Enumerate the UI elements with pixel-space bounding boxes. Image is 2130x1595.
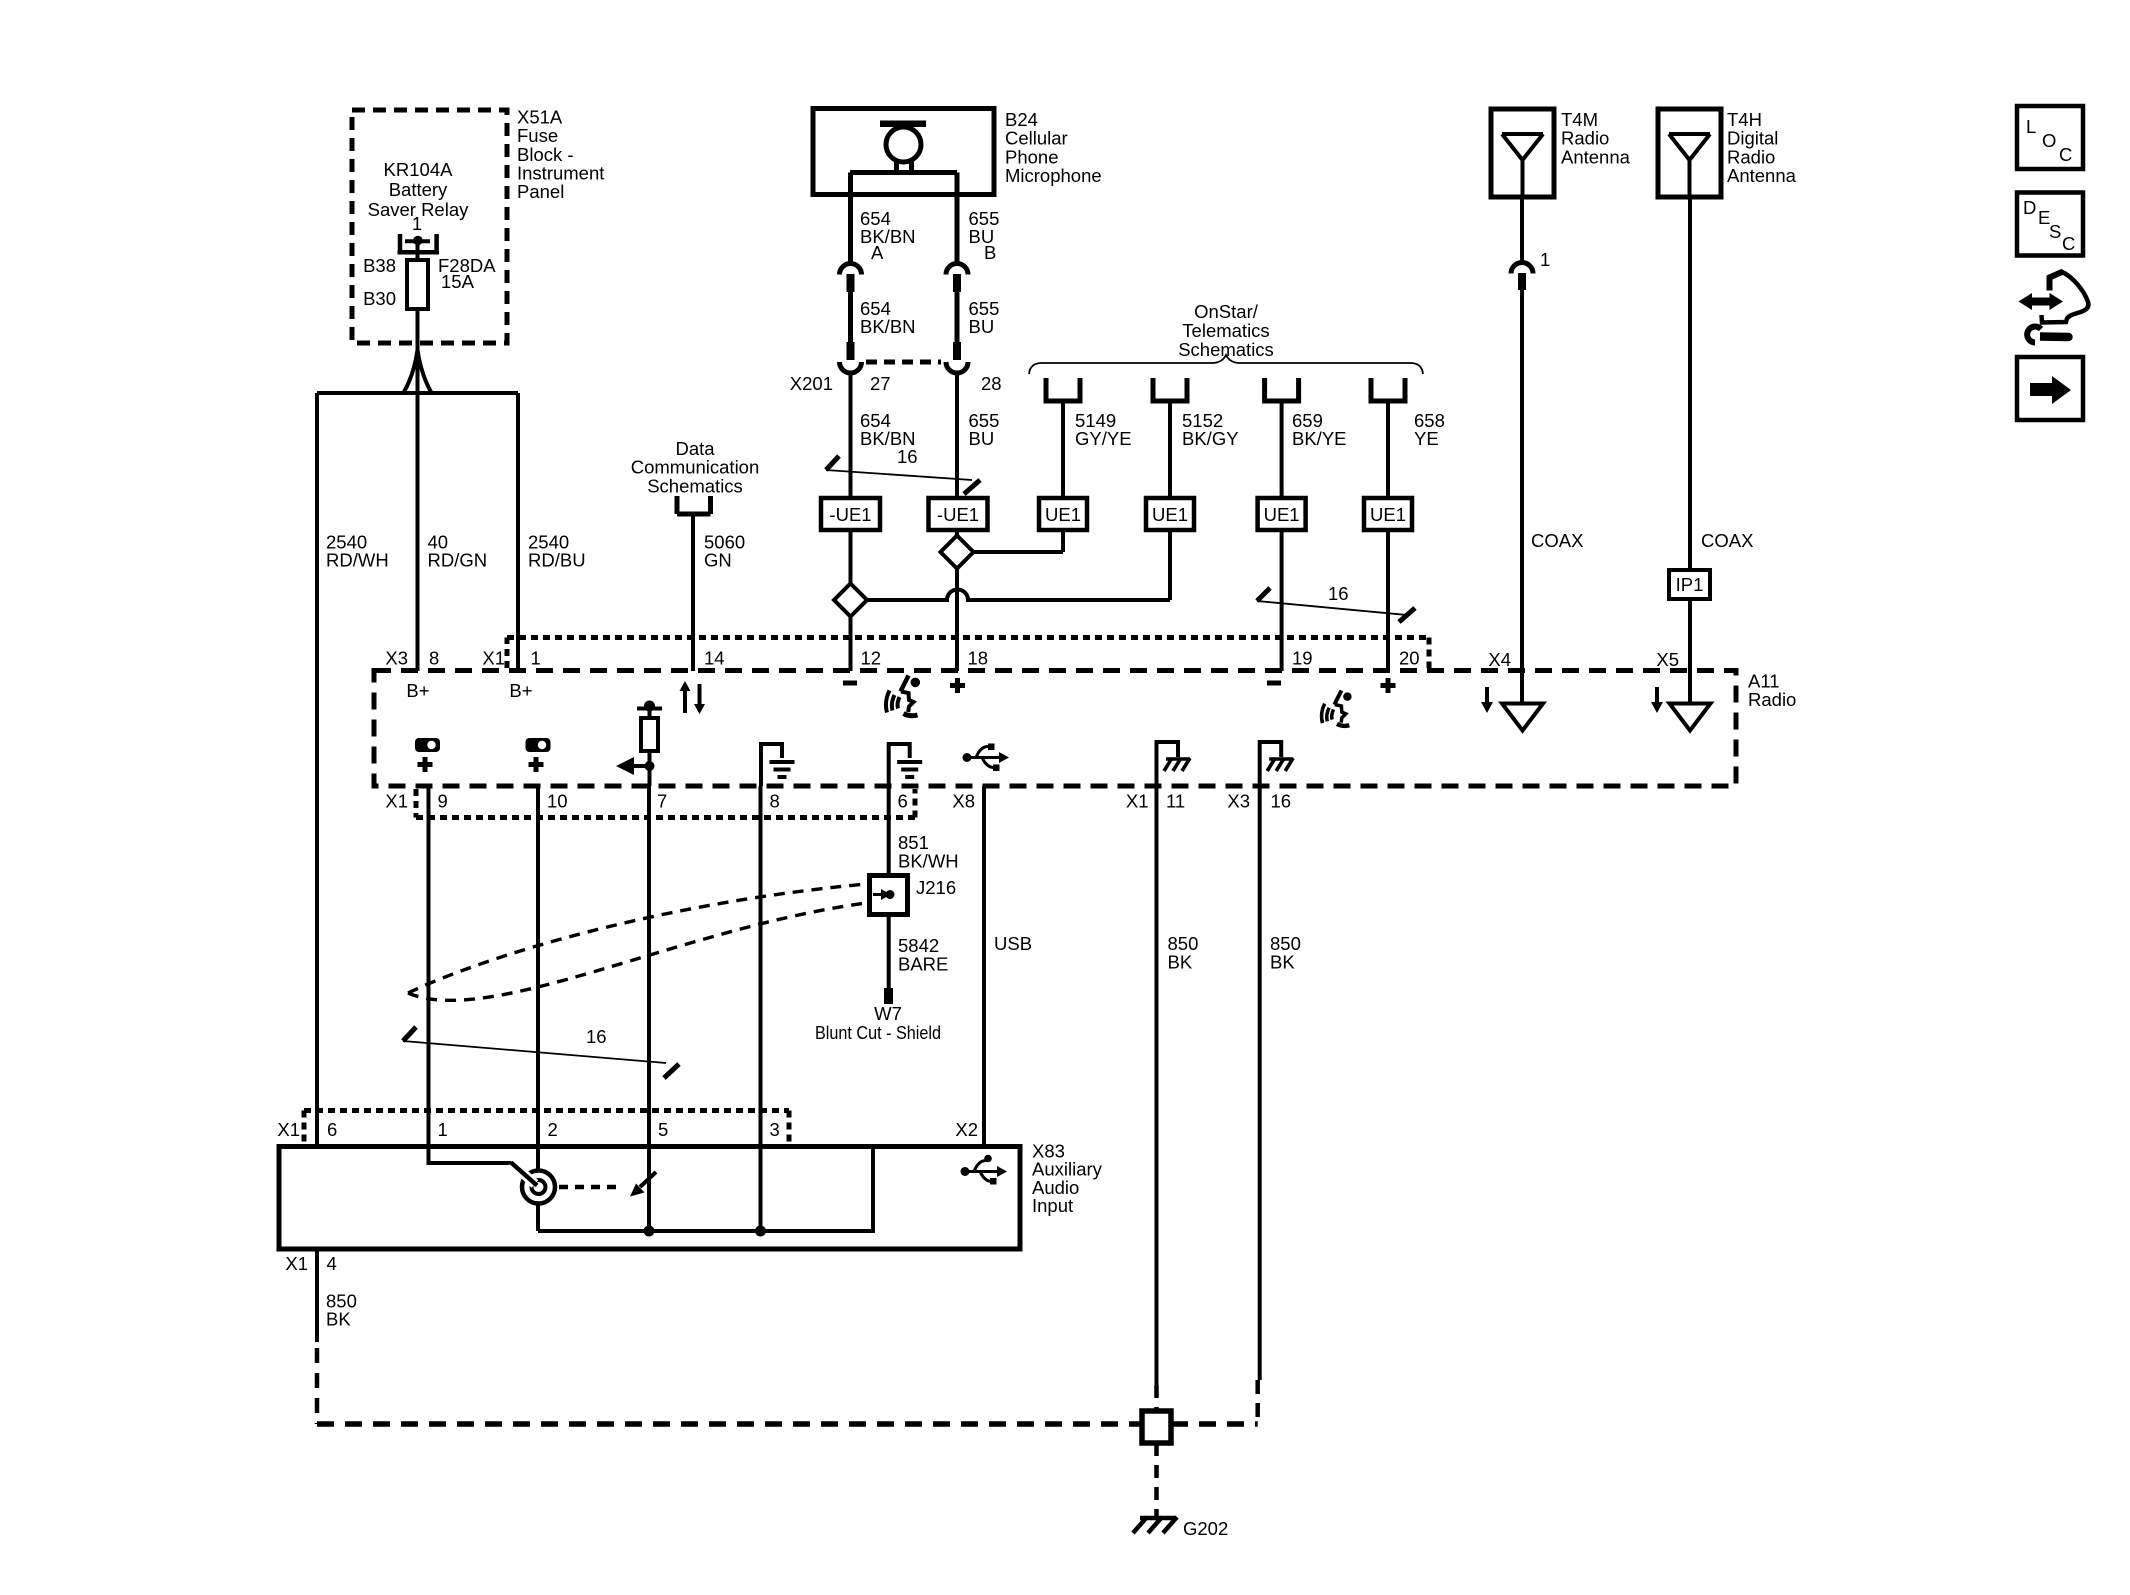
blunt cut W7 tick — [884, 988, 893, 1004]
splice box UE1 on 5152 — [1146, 498, 1194, 530]
svg-text:X2: X2 — [955, 1119, 978, 1140]
wire 850 BK pin11 down — [1155, 786, 1159, 1385]
connector X201 pin28 female arc — [946, 362, 968, 373]
wire 5841 GN pin10 to X83 pin2 — [536, 786, 540, 1146]
wire relay to fuse — [416, 241, 420, 261]
svg-text:Schematics: Schematics — [647, 475, 743, 496]
wire 654 mic leg A — [848, 173, 853, 263]
wire 654 below X201 — [849, 374, 853, 498]
splice diamond on 655 — [941, 536, 974, 569]
svg-text:10: 10 — [547, 791, 568, 812]
connector X201 dashed tie line — [866, 360, 941, 365]
voice speaker icon pins 12/18 — [886, 676, 920, 716]
svg-text:Schematics: Schematics — [1178, 339, 1274, 360]
splice box -UE1 on 655 — [929, 498, 988, 530]
minus sign pin19 — [1267, 681, 1281, 686]
svg-text:B+: B+ — [406, 680, 429, 701]
USB icon X83 — [961, 1155, 1008, 1185]
svg-text:B38: B38 — [363, 255, 396, 276]
svg-text:KR104A: KR104A — [384, 159, 454, 180]
svg-text:Blunt Cut - Shield: Blunt Cut - Shield — [815, 1022, 941, 1043]
wire 655 diamond down to pin 18 — [955, 569, 959, 672]
svg-text:B+: B+ — [509, 680, 532, 701]
chassis ground symbol pin11 — [1157, 742, 1191, 786]
svg-text:D: D — [2023, 197, 2036, 218]
wire T4M coax to radio X4 — [1520, 290, 1524, 703]
label B24 Cellular Phone Microphone — [1005, 109, 1102, 186]
svg-text:1: 1 — [438, 1119, 448, 1140]
splice fork right branch — [418, 350, 432, 392]
off-page stub OnStar 1 — [1046, 378, 1080, 401]
wire 850 BK X83 pin4 — [315, 1249, 319, 1342]
svg-text:18: 18 — [968, 648, 989, 669]
svg-text:BK/GY: BK/GY — [1182, 428, 1239, 449]
svg-text:16: 16 — [1328, 583, 1349, 604]
X5 receive arrow — [1651, 687, 1663, 713]
wire 2060 BU pin7 to X83 pin5 — [647, 786, 651, 1146]
svg-text:YE: YE — [1414, 428, 1439, 449]
wire 850 BK pin16 down — [1258, 786, 1262, 1380]
wire 2540 RD/BU right vertical — [516, 393, 520, 671]
svg-text:UE1: UE1 — [1264, 504, 1300, 525]
svg-text:16: 16 — [586, 1026, 607, 1047]
svg-text:BK: BK — [1270, 952, 1295, 973]
signal ground symbol pin8 — [761, 744, 795, 786]
wire 5842 BARE J216 to blunt cut — [887, 915, 891, 988]
svg-text:IP1: IP1 — [1676, 574, 1704, 595]
inline connector A male tick — [847, 274, 855, 292]
svg-text:19: 19 — [1292, 648, 1313, 669]
off-page stub OnStar 4 — [1371, 378, 1405, 401]
wire T4H coax upper — [1688, 197, 1692, 570]
svg-text:5: 5 — [658, 1119, 668, 1140]
svg-text:G202: G202 — [1183, 1518, 1228, 1539]
wire 5839 GY pin9 to X83 pin1 — [427, 786, 431, 1146]
nav icon LOC box — [2017, 106, 2083, 169]
splice square S — [1142, 1411, 1171, 1443]
svg-text:A: A — [871, 242, 884, 263]
svg-text:BK/YE: BK/YE — [1292, 428, 1347, 449]
antenna T4H box — [1658, 109, 1721, 197]
svg-text:Input: Input — [1032, 1195, 1073, 1216]
wire 654 diamond down to pin 12 — [849, 617, 853, 672]
svg-text:Telematics: Telematics — [1182, 320, 1269, 341]
svg-text:UE1: UE1 — [1152, 504, 1188, 525]
inline connector B female arc — [946, 264, 968, 275]
off-page stub OnStar 2 — [1153, 378, 1187, 401]
inline connector 1 male tick — [1518, 273, 1526, 290]
label A11 Radio — [1748, 671, 1796, 711]
wire T4H coax to radio X5 — [1688, 599, 1692, 703]
connector IP1 box — [1669, 570, 1710, 599]
label X51A Fuse Block - Instrument Panel — [517, 106, 604, 202]
X83 internal bus — [538, 1147, 873, 1232]
X5 antenna receptacle triangle — [1670, 704, 1711, 731]
twisted pair symbol 16 onstar — [1257, 588, 1415, 622]
fuse block X51A dashed box — [352, 110, 507, 343]
svg-text:X4: X4 — [1488, 649, 1511, 670]
wire 655 box to diamond — [955, 530, 959, 536]
svg-text:BK/WH: BK/WH — [898, 851, 959, 872]
jack switch contact arrow — [630, 1172, 656, 1197]
svg-text:BK/BN: BK/BN — [860, 316, 916, 337]
ground G202 symbol — [1133, 1517, 1177, 1533]
svg-text:X1: X1 — [482, 648, 505, 669]
svg-text:8: 8 — [429, 648, 439, 669]
svg-text:20: 20 — [1399, 648, 1420, 669]
svg-text:3: 3 — [770, 1119, 780, 1140]
X4 receive arrow — [1481, 687, 1493, 713]
wire 5060 GN — [691, 514, 695, 671]
signal ground symbol pin6 — [889, 744, 923, 786]
chassis ground symbol pin16 — [1260, 742, 1294, 786]
X83 internal wire pin1 to jack — [429, 1146, 512, 1163]
connector X201 pin27 male tick — [847, 342, 855, 360]
dashed wire splice to ground — [1154, 1443, 1159, 1516]
svg-text:GY/YE: GY/YE — [1075, 428, 1132, 449]
inline connector 1 female arc — [1511, 263, 1533, 274]
label X83 Auxiliary Audio Input — [1032, 1141, 1103, 1217]
microphone symbol — [850, 121, 957, 173]
svg-text:BK/BN: BK/BN — [860, 226, 916, 247]
svg-text:BU: BU — [969, 428, 995, 449]
plus sign pin18 — [950, 678, 965, 693]
label Data Communication Schematics — [631, 438, 760, 496]
svg-text:Microphone: Microphone — [1005, 165, 1102, 186]
svg-text:6: 6 — [898, 791, 908, 812]
svg-text:X1: X1 — [277, 1119, 300, 1140]
plus sign pin20 — [1381, 678, 1396, 693]
USB icon radio X8 — [963, 744, 1010, 772]
svg-text:7: 7 — [657, 791, 667, 812]
wire 655 below X201 — [955, 374, 959, 498]
svg-text:RD/GN: RD/GN — [428, 550, 488, 571]
wire 658 down to pin 20 — [1386, 530, 1390, 671]
svg-text:Panel: Panel — [517, 181, 564, 202]
svg-text:B: B — [984, 242, 996, 263]
splice box -UE1 on 654 — [821, 498, 880, 530]
inline connector A female arc — [840, 264, 862, 275]
shield oval dashed — [408, 884, 866, 1000]
junction dot pin5 bus — [644, 1226, 655, 1237]
audio out symbol pin9 — [415, 738, 440, 772]
splice box UE1 on 658 — [1364, 498, 1412, 530]
svg-text:11: 11 — [1166, 791, 1185, 812]
twisted pair symbol 16 below radio — [403, 1027, 679, 1078]
svg-text:X1: X1 — [285, 1253, 308, 1274]
serial data arrows pin14 — [680, 681, 706, 714]
svg-text:BK: BK — [1168, 952, 1193, 973]
wire 5149 GY/YE — [1061, 401, 1065, 498]
svg-text:16: 16 — [897, 446, 918, 467]
svg-text:GN: GN — [704, 550, 732, 571]
svg-text:12: 12 — [861, 648, 882, 669]
svg-text:OnStar/: OnStar/ — [1194, 301, 1259, 322]
wire diamond 655 to UE1 5149 — [974, 550, 1064, 554]
wire 40 RD/GN into pin X3 8 — [416, 660, 420, 671]
svg-text:C: C — [2059, 144, 2072, 165]
X83 auxiliary audio input box — [279, 1147, 1020, 1250]
splice bus bar — [317, 391, 518, 395]
wire 659 BK/YE — [1280, 401, 1284, 498]
off-page stub OnStar 3 — [1265, 378, 1299, 401]
svg-text:S: S — [2049, 221, 2061, 242]
svg-text:UE1: UE1 — [1370, 504, 1406, 525]
X83 internal wire pin2 through jack to bus — [536, 1146, 540, 1171]
svg-text:28: 28 — [981, 373, 1002, 394]
inline connector B male tick — [953, 274, 961, 292]
svg-text:-UE1: -UE1 — [937, 504, 979, 525]
svg-text:16: 16 — [1271, 791, 1292, 812]
jack switch dashed link — [559, 1185, 622, 1190]
svg-text:X3: X3 — [1227, 791, 1250, 812]
radio bottom connector X1 dotted outline — [416, 789, 915, 818]
wire diamond 654 to UE1 5152 with hop over 655 — [867, 590, 1170, 601]
svg-text:BK: BK — [326, 1309, 351, 1330]
label T4M Radio Antenna — [1561, 109, 1631, 167]
headphone jack symbol — [511, 1163, 555, 1204]
svg-text:1: 1 — [531, 648, 541, 669]
wire 5152 BK/GY — [1168, 401, 1172, 498]
svg-text:8: 8 — [770, 791, 780, 812]
radio A11 dashed box — [374, 671, 1736, 787]
svg-text:Antenna: Antenna — [1727, 165, 1797, 186]
twisted pair symbol 16 mic wires — [826, 456, 980, 494]
wire 655 segment B to X201 — [955, 292, 960, 345]
svg-text:BARE: BARE — [898, 954, 948, 975]
dashed segment pin11 wire to splice — [1154, 1385, 1159, 1411]
wire 659 down to pin 19 — [1280, 530, 1284, 671]
svg-text:6: 6 — [327, 1119, 337, 1140]
dashed ground wire left vertical — [315, 1348, 320, 1424]
svg-text:15A: 15A — [441, 271, 475, 292]
svg-text:X8: X8 — [952, 791, 975, 812]
splice box UE1 on 659 — [1258, 498, 1306, 530]
svg-text:2: 2 — [548, 1119, 558, 1140]
antenna T4M box — [1491, 109, 1554, 197]
svg-text:L: L — [2026, 116, 2036, 137]
minus sign pin12 — [843, 681, 857, 686]
wire fuse down to splice fork — [416, 309, 420, 671]
svg-text:USB: USB — [994, 933, 1032, 954]
wire 654 segment A to X201 — [848, 292, 853, 345]
wire 658 YE — [1386, 401, 1390, 498]
svg-text:RD/WH: RD/WH — [326, 550, 389, 571]
svg-text:9: 9 — [438, 791, 448, 812]
svg-text:4: 4 — [327, 1253, 337, 1274]
svg-text:Antenna: Antenna — [1561, 146, 1631, 167]
splice box UE1 on 5149 — [1039, 498, 1087, 530]
svg-text:1: 1 — [412, 213, 422, 234]
wire 655 mic leg B — [955, 173, 960, 263]
X4 antenna receptacle triangle — [1502, 704, 1543, 731]
radio top connector X1 dotted outline — [507, 638, 1429, 669]
svg-text:X1: X1 — [385, 791, 408, 812]
wire 851 BK/WH pin6 to J216 — [887, 786, 891, 875]
fuse F28DA 15A — [407, 260, 428, 309]
antenna T4H symbol — [1669, 134, 1710, 197]
antenna T4M symbol — [1502, 134, 1543, 197]
off-page stub Data Communication — [677, 496, 711, 514]
splice fork left branch — [404, 350, 418, 392]
svg-text:J216: J216 — [916, 877, 956, 898]
svg-text:UE1: UE1 — [1045, 504, 1081, 525]
audio out symbol pin10 — [526, 738, 551, 772]
voice speaker icon pins 19/20 — [1322, 691, 1352, 726]
nav icon next arrow box — [2017, 357, 2083, 420]
svg-text:-UE1: -UE1 — [829, 504, 871, 525]
wire 5843 VT pin8 to X83 pin3 — [759, 786, 763, 1146]
svg-text:W7: W7 — [874, 1003, 902, 1024]
svg-text:B30: B30 — [363, 288, 396, 309]
svg-text:Radio: Radio — [1748, 689, 1796, 710]
svg-text:X1: X1 — [1126, 791, 1149, 812]
relay KR104A contact symbol — [398, 234, 440, 252]
junction block J216 — [870, 876, 908, 915]
connector X201 pin27 female arc — [840, 362, 862, 373]
svg-text:1: 1 — [1540, 249, 1550, 270]
label W7 Blunt Cut - Shield — [815, 1003, 941, 1043]
svg-text:O: O — [2042, 130, 2056, 151]
wire 2540 RD/WH left vertical — [315, 393, 319, 1146]
connector X201 pin28 male tick — [953, 342, 961, 360]
microphone B24 box — [813, 109, 994, 195]
splice diamond on 654 — [834, 584, 867, 617]
svg-text:X201: X201 — [790, 373, 833, 394]
svg-text:C: C — [2062, 233, 2075, 254]
X83 internal wire pin5 to bus — [647, 1146, 651, 1231]
junction dot pin3 bus — [755, 1226, 766, 1237]
label T4H Digital Radio Antenna — [1727, 109, 1797, 186]
svg-text:X3: X3 — [385, 648, 408, 669]
svg-text:BU: BU — [969, 316, 995, 337]
svg-text:RD/BU: RD/BU — [528, 550, 586, 571]
dimmer resistor symbol pin7 — [616, 701, 662, 787]
label KR104A Battery Saver Relay — [368, 159, 470, 220]
wire T4M coax upper — [1520, 197, 1524, 262]
X83 internal wire pin3 to bus — [759, 1146, 763, 1231]
svg-text:Battery: Battery — [389, 179, 448, 200]
nav icon DESC box — [2017, 193, 2083, 256]
label OnStar/Telematics Schematics — [1178, 301, 1274, 360]
dashed ground bus right segment — [1171, 1421, 1258, 1427]
svg-text:14: 14 — [704, 648, 725, 669]
J216 arrow dot — [873, 889, 895, 900]
brace OnStar — [1029, 355, 1423, 374]
dashed ground bus horizontal — [317, 1421, 1142, 1427]
nav icon repair/compare — [2019, 272, 2089, 343]
svg-text:COAX: COAX — [1531, 530, 1583, 551]
dashed segment pin16 wire to bus — [1255, 1380, 1260, 1424]
X83 top connector X1 dotted outline — [304, 1111, 789, 1145]
svg-text:COAX: COAX — [1701, 530, 1753, 551]
wire USB X8 to X83 X2 — [982, 786, 986, 1146]
svg-text:27: 27 — [870, 373, 891, 394]
svg-text:X5: X5 — [1656, 649, 1679, 670]
